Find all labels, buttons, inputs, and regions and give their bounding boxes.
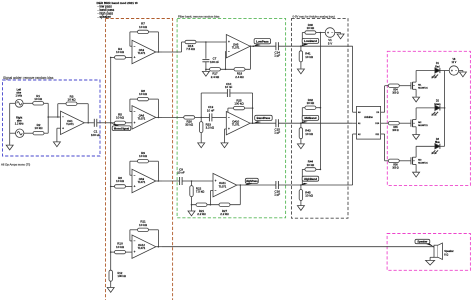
svg-text:+: +	[134, 56, 136, 60]
resistor R23 lead	[200, 117, 202, 121]
wire bandpass fb down	[252, 93, 254, 123]
resistor R1	[33, 102, 44, 105]
sine source right	[16, 129, 24, 137]
wire C16 to HighBand	[278, 184, 352, 186]
svg-text:TL071: TL071	[232, 122, 240, 126]
svg-text:Arduino: Arduino	[364, 116, 373, 119]
resistor R42	[305, 106, 316, 109]
orange dashed box: buffer column	[106, 19, 173, 305]
node between R17 R18	[225, 69, 227, 71]
op-amp OA10	[226, 112, 250, 135]
net label HighBand	[302, 176, 319, 181]
svg-text:TL071: TL071	[138, 246, 146, 250]
svg-text:10 kΩ: 10 kΩ	[139, 223, 148, 227]
magenta dashed box: speaker	[387, 234, 470, 271]
op-amp OA11	[213, 173, 237, 196]
wire bandpass fb top right	[230, 92, 253, 94]
svg-text:−: −	[331, 31, 333, 35]
ground speaker	[426, 260, 435, 265]
wire R7 right lead	[149, 31, 159, 33]
svg-text:100 Ω: 100 Ω	[392, 93, 398, 95]
op-amp OA6	[132, 106, 156, 129]
wire rail to inverting input	[48, 116, 60, 118]
wire R40 right lead	[316, 32, 325, 34]
svg-text:+: +	[215, 179, 217, 183]
wire D3 cathode to rail	[440, 145, 445, 147]
svg-text:+: +	[451, 69, 453, 73]
svg-text:MLB8721: MLB8721	[418, 125, 428, 127]
wire OA1 output	[84, 122, 94, 124]
wire R11 left lead	[130, 229, 138, 231]
wire C13 to OA10 minus	[212, 116, 226, 118]
arduino U1	[357, 106, 381, 139]
ground R41	[297, 69, 304, 74]
wire rail lowpass feedback	[206, 68, 251, 70]
svg-text:MidBand: MidBand	[304, 116, 316, 120]
net label LowPass	[254, 39, 271, 44]
wire R9 left lead	[130, 160, 138, 162]
svg-text:10 nF: 10 nF	[177, 171, 185, 175]
wire R4 to op-amp	[126, 56, 133, 58]
resistor R10	[115, 250, 126, 253]
svg-text:10 kΩ: 10 kΩ	[116, 116, 125, 120]
ground M2 source	[413, 135, 420, 140]
wire A2 stub	[353, 133, 357, 135]
resistor R12	[109, 270, 112, 281]
svg-text:2.4 kΩ: 2.4 kΩ	[235, 75, 244, 79]
wire R44 left lead	[302, 168, 305, 170]
wire R34 to gate	[399, 85, 411, 87]
net flag BandPass	[253, 121, 261, 123]
wire C9 to node	[182, 180, 191, 182]
wire A1 stub	[353, 122, 357, 124]
wire R40 left lead	[302, 32, 305, 34]
svg-text:10 kΩ: 10 kΩ	[116, 50, 125, 54]
wire C7 to ground	[205, 69, 207, 71]
wire R22 to rail	[191, 197, 193, 205]
svg-text:+: +	[134, 121, 136, 125]
wire R2 to rail	[44, 132, 48, 134]
ground sources	[6, 145, 13, 150]
black dashed box: arduino bias	[292, 19, 349, 219]
wire R40 left vertical	[301, 33, 303, 47]
svg-text:10 kΩ: 10 kΩ	[116, 179, 125, 183]
wire R3 left lead	[58, 103, 66, 105]
wire OA11 output	[237, 184, 276, 186]
svg-text:+: +	[62, 126, 64, 130]
ground R23	[198, 143, 205, 148]
resistor R45 lead	[300, 185, 302, 190]
wire OA6 minus stub	[130, 111, 132, 113]
wire node to OA5 plus	[206, 41, 226, 43]
wire D9 up to row1	[384, 86, 386, 113]
svg-text:10 kΩ: 10 kΩ	[307, 26, 315, 30]
wire D10 to row2	[385, 122, 389, 124]
resistor R22 lead	[191, 181, 193, 186]
node bus R10	[110, 251, 112, 253]
wire R8 left lead	[130, 98, 138, 100]
wire R25 right lead	[245, 107, 253, 109]
capacitor C7 top lead	[205, 42, 207, 59]
transistor M3	[410, 157, 412, 164]
wire HighBand up to A2	[352, 134, 354, 185]
net label BandPass	[255, 115, 273, 120]
svg-text:+: +	[134, 250, 136, 254]
node R42 5V rail	[320, 107, 322, 109]
wire D2 cathode to rail	[440, 107, 445, 109]
svg-text:−: −	[228, 116, 230, 120]
wire R25 left vertical	[227, 108, 229, 117]
svg-text:10 kΩ: 10 kΩ	[139, 154, 148, 158]
wire D11 stub	[381, 133, 385, 135]
wire R12 to ground	[110, 281, 112, 287]
resistor R3	[66, 102, 77, 105]
wire OA11 minus down	[209, 191, 211, 205]
wire bandpass fb top left	[201, 92, 227, 94]
svg-text:10 kΩ: 10 kΩ	[139, 25, 148, 29]
svg-text:1.2 kHz: 1.2 kHz	[15, 122, 24, 126]
svg-text:−: −	[134, 110, 136, 114]
svg-text:10 kΩ: 10 kΩ	[116, 245, 125, 249]
svg-text:10 kΩ: 10 kΩ	[305, 194, 313, 198]
svg-text:LowBand: LowBand	[304, 39, 317, 43]
wire R16 to node	[196, 41, 206, 43]
node R25 fb junction	[252, 107, 254, 109]
svg-text:−: −	[134, 44, 136, 48]
net label MidBand	[302, 115, 319, 120]
wire R6 to op-amp	[126, 185, 133, 187]
wire R10 to op-amp	[126, 251, 133, 253]
wire R45 to ground	[300, 201, 302, 206]
svg-text:2.4 kΩ: 2.4 kΩ	[211, 75, 220, 79]
magenta dashed box: LED drivers	[387, 51, 470, 185]
svg-text:TL071: TL071	[138, 180, 146, 184]
wire sources common vertical	[9, 103, 11, 145]
ground M1 source	[413, 97, 420, 102]
ground R45	[297, 206, 304, 211]
wire drain to LED D2	[416, 107, 435, 109]
wire node to OA11 plus	[192, 180, 214, 182]
wire V8 to ground	[459, 70, 463, 72]
svg-text:MLB8721: MLB8721	[418, 87, 428, 89]
svg-text:10 kΩ: 10 kΩ	[34, 97, 43, 101]
svg-text:R35: R35	[393, 127, 398, 129]
svg-text:10 kΩ: 10 kΩ	[68, 98, 77, 102]
ground R12	[107, 288, 114, 293]
resistor R20	[184, 116, 195, 119]
resistor R22	[190, 186, 193, 197]
wire drain to LED D1	[416, 70, 435, 72]
net flag MonoSignal	[111, 123, 120, 126]
resistor R2	[33, 132, 44, 135]
wire feedback left vertical OA12	[129, 230, 131, 241]
wire R41 to ground	[300, 62, 302, 69]
node OA10 output	[252, 122, 254, 124]
node C7 bottom	[205, 69, 207, 71]
voltage source V8	[449, 66, 458, 75]
svg-text:−: −	[134, 239, 136, 243]
svg-text:MLB8721: MLB8721	[418, 162, 428, 164]
node bus R6	[110, 186, 112, 188]
node OA5 output	[250, 45, 252, 47]
svg-text:LowPass: LowPass	[256, 39, 269, 43]
LED D3	[435, 144, 440, 149]
net flag LowPass	[253, 44, 261, 46]
resistor R35 gate	[388, 122, 399, 125]
node R21 R27 minus	[210, 204, 212, 206]
svg-text:Speaker: Speaker	[417, 240, 427, 244]
wire LowBand down to A0	[352, 46, 354, 112]
svg-text:R34: R34	[393, 89, 398, 91]
wire OA10 plus stub	[225, 128, 227, 130]
wire sine2 to R2	[24, 132, 33, 134]
node speaker	[433, 246, 435, 248]
blue dashed box: signal adder	[3, 80, 101, 156]
capacitor C1	[93, 119, 95, 127]
wire OA9 minus stub	[130, 174, 132, 176]
svg-text:7.5 kΩ: 7.5 kΩ	[186, 47, 196, 51]
wire R20 to node	[195, 116, 210, 118]
ground V1	[337, 34, 344, 39]
resistor R4	[115, 56, 126, 59]
wire D10 stub	[381, 122, 385, 124]
wire R23 to ground	[200, 133, 202, 143]
wire R5 to op-amp	[126, 122, 133, 124]
net flag LowBand	[301, 44, 309, 47]
wire M1 drain up	[415, 71, 417, 83]
wire C15 to MidBand	[278, 122, 352, 124]
svg-text:2.2 kΩ: 2.2 kΩ	[220, 212, 229, 216]
svg-text:- speaker: - speaker	[98, 15, 112, 19]
wire row4 output to speaker	[162, 246, 434, 248]
node rail junction	[47, 116, 49, 118]
ground V8	[459, 72, 466, 77]
resistor R45	[299, 190, 302, 201]
wire bus to R5	[111, 122, 115, 124]
resistor R16	[185, 40, 196, 43]
op-amp OA3	[132, 40, 156, 63]
resistor R18	[234, 68, 245, 71]
ground highpass	[188, 211, 195, 216]
net flag MidBand	[300, 121, 308, 123]
wire row2 output to R20	[162, 116, 184, 118]
node MidBand	[300, 122, 302, 124]
wire MonoSignal bus	[110, 57, 112, 270]
resistor R44	[305, 168, 316, 171]
svg-text:TL071: TL071	[66, 122, 74, 126]
voltage source V1	[325, 28, 335, 38]
wire M1 source down	[415, 89, 417, 97]
svg-text:+: +	[228, 40, 230, 44]
node lowpass label tap	[252, 45, 254, 47]
svg-text:−: −	[455, 69, 457, 73]
svg-text:TL071: TL071	[138, 51, 146, 55]
wire OA10 plus down	[224, 129, 226, 143]
wire M3 source down	[415, 164, 417, 172]
svg-text:10 nF: 10 nF	[207, 108, 215, 112]
svg-text:−: −	[134, 173, 136, 177]
svg-text:Signal adder: remove random bi: Signal adder: remove random bias	[3, 76, 54, 80]
svg-text:10 kΩ: 10 kΩ	[139, 92, 148, 96]
wire OA9 output	[156, 180, 162, 182]
wire feedback right vertical OA12	[157, 230, 159, 247]
node bus R4	[110, 57, 112, 59]
wire R11 right lead	[149, 229, 159, 231]
wire OA11 minus stub	[210, 190, 213, 192]
wire row1 jog vertical	[181, 42, 183, 52]
wire R42 left lead	[302, 107, 305, 109]
wire OA12 minus stub	[130, 240, 132, 242]
svg-text:8 Ω: 8 Ω	[444, 253, 448, 256]
svg-text:All Op Amps mono (TI): All Op Amps mono (TI)	[1, 162, 30, 166]
wire OA1 plus to ground	[56, 128, 58, 142]
svg-text:−: −	[228, 50, 230, 54]
net label LowBand	[302, 38, 319, 43]
wire R42 right lead	[316, 107, 321, 109]
svg-text:10 kΩ: 10 kΩ	[307, 101, 315, 105]
wire bus to R6	[111, 185, 115, 187]
wire drain to LED D3	[416, 145, 435, 147]
transistor M1	[410, 82, 412, 89]
node R40 5V rail	[320, 32, 322, 34]
wire R7 left lead	[130, 31, 138, 33]
wire 5V rail	[319, 33, 321, 170]
wire R3 left vertical	[57, 104, 59, 117]
resistor R43	[299, 128, 302, 139]
node R3 feedback junction	[57, 116, 59, 118]
svg-text:TL071: TL071	[219, 184, 227, 188]
node OA6 output	[158, 117, 160, 119]
svg-text:12 V: 12 V	[452, 62, 457, 64]
node LowBand	[300, 45, 302, 47]
wire R3 right vertical	[87, 104, 89, 123]
svg-text:−: −	[215, 189, 217, 193]
svg-text:100 Ω: 100 Ω	[392, 168, 398, 170]
svg-text:Filter bank: remove random bia: Filter bank: remove random bias	[178, 14, 220, 18]
svg-text:100 Ω: 100 Ω	[392, 130, 398, 132]
node rail D2	[444, 107, 446, 109]
svg-text:TL071: TL071	[232, 45, 240, 49]
wire OA10 output	[250, 122, 276, 124]
resistor R40	[305, 31, 316, 34]
wire bandpass fb up	[200, 93, 202, 117]
wire M2 source down	[415, 127, 417, 135]
ground lowpass	[202, 71, 209, 76]
node highpass input	[191, 180, 193, 182]
svg-text:2.2 kΩ: 2.2 kΩ	[197, 212, 206, 216]
svg-text:1 µF: 1 µF	[274, 54, 280, 58]
wire row3 output to C9	[162, 180, 179, 182]
net flag Speaker	[426, 244, 434, 247]
wire M2 drain up	[415, 108, 417, 120]
resistor R6	[115, 185, 126, 188]
resistor R27	[219, 203, 230, 206]
speaker SP1	[434, 245, 438, 257]
svg-text:7.5 kΩ: 7.5 kΩ	[196, 190, 205, 194]
wire sine1 to R1	[23, 102, 33, 104]
wire sine2 left lead	[10, 132, 16, 134]
wire R44 left vertical	[301, 169, 303, 185]
sine source left	[15, 99, 23, 107]
node OA1 output junction	[87, 122, 89, 124]
resistor R34 gate	[388, 84, 399, 87]
net flag HighBand	[300, 183, 308, 185]
wire R36 to gate	[399, 160, 411, 162]
wire bus to R4	[111, 56, 115, 58]
node OA3 output	[158, 51, 160, 53]
node lowpass input	[205, 41, 207, 43]
wire R42 left vertical	[301, 108, 303, 124]
op-amp OA1	[61, 111, 85, 134]
wire jog to R16	[182, 41, 186, 43]
capacitor C9	[179, 177, 181, 185]
svg-text:1 µF: 1 µF	[274, 193, 280, 197]
wire feedback right vertical OA9	[157, 161, 159, 181]
node OA12 output	[158, 246, 160, 248]
wire highpass bottom rail	[192, 204, 241, 206]
svg-text:−: −	[62, 115, 64, 119]
svg-text:100 kΩ: 100 kΩ	[234, 102, 244, 106]
wire D11 down to row3	[384, 134, 386, 161]
wire R35 to gate	[399, 122, 411, 124]
wire R44 right lead	[316, 168, 321, 170]
capacitor C14	[275, 42, 277, 50]
wire OA6 output	[156, 116, 162, 118]
svg-text:MonoSignal: MonoSignal	[114, 126, 129, 130]
ground R43	[297, 144, 304, 149]
svg-text:100 uF: 100 uF	[91, 133, 101, 137]
ground OA10 plus	[221, 143, 228, 148]
wire R43 to ground	[300, 139, 302, 144]
LED D2	[435, 105, 440, 110]
node bus R5	[110, 122, 112, 124]
net label MonoSignal	[112, 126, 131, 131]
svg-text:BandPass: BandPass	[257, 116, 271, 120]
wire feedback left vertical OA6	[129, 99, 131, 112]
wire D9 stub	[381, 111, 385, 113]
ground OA1 plus	[53, 142, 60, 147]
resistor R23	[200, 122, 203, 133]
wire R3 right lead	[77, 103, 88, 105]
wire input rail	[47, 103, 49, 133]
capacitor C7	[202, 59, 209, 61]
op-amp OA12	[132, 235, 156, 258]
wire R1 to rail	[44, 102, 49, 104]
wire D1 cathode to rail	[440, 70, 445, 72]
wire OA3 output	[156, 51, 162, 53]
svg-text:33 kΩ: 33 kΩ	[185, 123, 194, 127]
svg-text:10 kΩ: 10 kΩ	[305, 55, 313, 59]
wire row1 output horizontal	[162, 51, 182, 53]
svg-text:TL071: TL071	[138, 117, 146, 121]
wire OA11 feedback vertical	[239, 185, 241, 205]
resistor R7 feedback	[138, 30, 149, 33]
resistor R9 feedback	[138, 160, 149, 163]
svg-text:100 kΩ: 100 kΩ	[118, 274, 126, 278]
svg-text:+: +	[327, 31, 329, 35]
wire M3 drain up	[415, 146, 417, 157]
svg-text:0-5V max for Arduino analog in: 0-5V max for Arduino analog input	[293, 14, 336, 18]
svg-text:HighPass: HighPass	[246, 179, 258, 183]
wire A0 stub	[353, 111, 357, 113]
wire OA1 plus stub	[57, 127, 61, 129]
op-amp OA9	[132, 169, 156, 192]
wire bus to R10	[111, 251, 115, 253]
wire rail to ground	[191, 205, 193, 211]
wire R8 right lead	[149, 98, 159, 100]
wire rail to V8	[445, 70, 450, 72]
wire V1 to ground	[335, 32, 341, 34]
